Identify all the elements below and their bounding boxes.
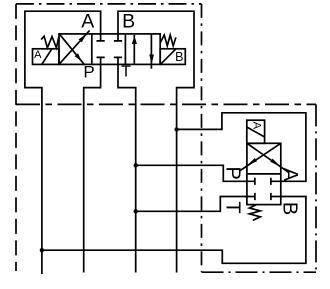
svg-text:P: P [222,167,244,180]
V1 arrow head on A-to-T diagonal [75,53,82,61]
wire net B : V1 port B up, around right, down as riser [118,11,194,272]
enclosure manifold M1 dash-dot left border [15,4,17,271]
svg-text:A: A [251,122,263,130]
V2 blocked port A stub [271,178,281,185]
V1 center position blocked port P stub [97,57,105,64]
solenoid b diagonal [161,49,176,64]
V2 arrow head toward P [247,158,257,166]
svg-text:T: T [121,64,131,81]
svg-text:A: A [81,11,94,33]
valve V1 body boxes [59,34,160,65]
enclosure manifold M1 dash-dot top border [16,3,202,5]
valve V1 position divider right [124,34,126,65]
wire net T : V1 port T down riser [118,64,136,272]
valve V2 position divider [247,173,281,175]
solenoid b (V1 right) box [160,49,185,65]
wire net A : V1 port A up, around left, down as riser [25,11,101,274]
V2 blocked port B stub [271,193,281,200]
enclosure manifold M2 dash-dot bottom border [202,271,317,273]
V1 center position blocked port B stub [114,34,122,41]
V2 arrow head toward A [270,159,281,167]
V2 crossed-flow arrow line to A [247,143,289,172]
V1 arrow head down [149,55,154,65]
enclosure dash-dot middle vertical border [201,4,203,272]
V2 crossed-flow arrow line to P [240,143,281,170]
V2 blocked port P stub [247,178,255,185]
svg-text:B: B [122,11,135,33]
spring left (V1) [41,36,59,48]
V1 center position blocked port T stub [114,57,122,64]
svg-text:A: A [34,49,42,61]
wire net B to V2 port A connector [177,113,306,182]
enclosure manifold M2 dash-dot right border [315,104,317,272]
wire net P : V1 port P down riser [84,64,101,272]
svg-text:T: T [221,201,243,213]
solenoid a (V1 left) box [33,49,60,65]
valve V1 position divider left [91,34,93,65]
junction dot net T upper [134,163,138,167]
solenoid a diagonal [42,49,52,64]
V1 crossed-flow arrow A-to-T line [59,34,84,65]
svg-text:P: P [83,63,94,82]
junction dot net B [174,127,178,131]
svg-text:B: B [175,50,183,64]
spring right (V1) [160,35,176,46]
svg-text:B: B [279,202,301,215]
wire net T to V2 port P connector [136,165,247,181]
svg-text:A: A [279,168,301,182]
solenoid a2 (V2) box [247,120,265,143]
V1 arrow head on P-to-B diagonal [79,34,87,42]
enclosure dash-dot horizontal divider [16,103,316,105]
V1 parallel-flow down arrow line [150,34,152,69]
junction dot net T lower [134,209,138,213]
V2 port B to wire net A bottom connector [42,197,306,264]
V2 blocked port T stub [247,193,255,200]
wire net T to V2 port T connector [136,197,247,212]
V1 crossed-flow arrow P-to-B line [59,30,89,64]
V1 center position blocked port A stub [97,34,105,41]
spring bottom (V2) [249,205,260,221]
solenoid a2 diagonal [247,127,265,137]
junction dot net A [40,248,44,252]
V1 arrow head up [132,36,137,44]
valve V2 body boxes [247,143,281,204]
V1 parallel-flow up arrow line [133,35,135,65]
